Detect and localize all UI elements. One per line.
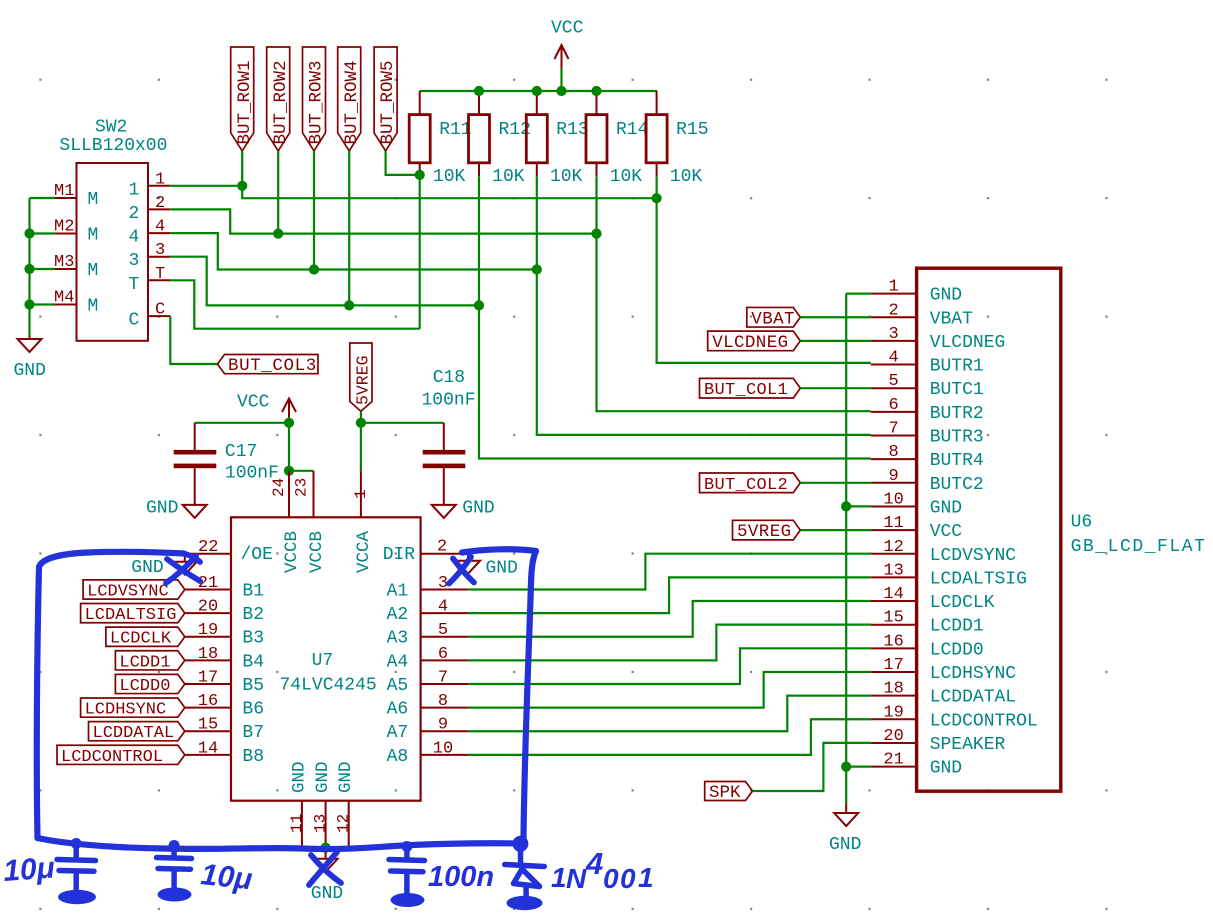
capacitor C17 xyxy=(174,423,279,505)
wire M1 stub xyxy=(30,197,56,199)
wire VCC arrow to junction xyxy=(288,417,290,423)
ground symbol at U7 pin 22 xyxy=(173,554,197,575)
annotation junction cap1 xyxy=(71,838,82,849)
svg-text:LCDD1: LCDD1 xyxy=(119,653,170,672)
U7 pin 10 A8 xyxy=(387,739,469,767)
annotation capacitor 10u (left) xyxy=(57,844,96,891)
svg-text:LCDD0: LCDD0 xyxy=(119,677,170,696)
svg-text:BUTR4: BUTR4 xyxy=(930,451,984,471)
svg-text:GND: GND xyxy=(289,761,309,793)
SW2 left pin M2 xyxy=(54,218,98,246)
svg-text:5VREG: 5VREG xyxy=(737,522,792,542)
U7 pin 24 VCCB xyxy=(270,471,302,573)
svg-text:7: 7 xyxy=(438,668,448,687)
net label LCDDATAL xyxy=(89,722,185,744)
wire BUT_ROW3 drop xyxy=(313,151,315,270)
wire U6 gnd drop xyxy=(845,767,847,803)
svg-text:5: 5 xyxy=(888,372,898,391)
svg-text:M3: M3 xyxy=(54,253,74,272)
svg-text:GND: GND xyxy=(829,835,861,855)
wire U7 A5 to U6 pin 16 xyxy=(468,648,871,684)
svg-text:C: C xyxy=(155,301,165,320)
net label BUT_ROW4 xyxy=(338,47,362,151)
wire BUT_COL1 to pin5 xyxy=(800,387,871,389)
svg-text:19: 19 xyxy=(198,621,218,640)
junction M3 xyxy=(24,264,34,274)
svg-text:B8: B8 xyxy=(242,747,264,767)
ground symbol below C17 xyxy=(183,505,207,518)
wire BUT_ROW4 drop xyxy=(348,151,350,306)
U7 pin 23 VCCB xyxy=(293,471,327,573)
U7 pin 1 VCCA xyxy=(352,472,374,574)
net label BUT_ROW2 xyxy=(267,47,291,151)
svg-text:10K: 10K xyxy=(492,167,525,187)
svg-text:A1: A1 xyxy=(387,582,409,602)
svg-text:VCCA: VCCA xyxy=(354,530,374,573)
annotation capacitor 10u (second) xyxy=(157,846,192,889)
svg-text:BUT_ROW2: BUT_ROW2 xyxy=(271,60,291,144)
svg-text:A3: A3 xyxy=(387,629,409,649)
svg-text:A5: A5 xyxy=(387,676,409,696)
annotation blue X at U7 pin2 gnd xyxy=(449,557,474,584)
svg-text:10μ: 10μ xyxy=(2,851,56,888)
svg-text:GND: GND xyxy=(930,498,962,518)
wire SPK to pin20 xyxy=(753,743,871,791)
U7 pin 21 B1 xyxy=(185,574,264,602)
wire VCCB jog to pin 23 xyxy=(289,470,314,472)
svg-text:R11: R11 xyxy=(439,120,471,140)
svg-text:LCDDATAL: LCDDATAL xyxy=(93,724,175,743)
junction row2/R14 xyxy=(591,229,601,239)
svg-text:BUTR1: BUTR1 xyxy=(930,357,984,377)
U7 pin 11 GND xyxy=(288,761,310,848)
svg-text:2: 2 xyxy=(129,204,140,224)
wire net row4 (pin3 bus) xyxy=(170,257,479,306)
svg-text:10K: 10K xyxy=(433,167,466,187)
svg-text:VBAT: VBAT xyxy=(751,309,795,329)
ground symbol below U7 xyxy=(314,849,338,872)
U7 pin 7 A5 xyxy=(387,668,469,696)
ground symbol at U7 pin 2 xyxy=(456,554,480,574)
net label 5VREG (vertical) xyxy=(350,343,373,411)
annotation blue loop right side xyxy=(462,549,536,842)
svg-text:SW2: SW2 xyxy=(95,117,127,137)
svg-text:GND: GND xyxy=(336,761,356,793)
annotation text 1N4001 xyxy=(551,846,654,894)
svg-text:17: 17 xyxy=(198,668,218,687)
svg-text:14: 14 xyxy=(883,585,903,604)
svg-text:1: 1 xyxy=(638,862,654,893)
svg-text:15: 15 xyxy=(198,716,218,735)
SW2 right pin C xyxy=(129,301,171,331)
svg-text:0: 0 xyxy=(620,863,636,894)
resistor R13 xyxy=(526,91,588,187)
svg-text:SPK: SPK xyxy=(709,783,741,803)
svg-text:VBAT: VBAT xyxy=(930,309,973,329)
svg-text:N: N xyxy=(566,863,587,894)
junction row1/R15 xyxy=(652,193,662,203)
svg-text:BUT_ROW1: BUT_ROW1 xyxy=(235,60,255,144)
net label BUT_COL3 xyxy=(218,355,319,377)
svg-text:5VREG: 5VREG xyxy=(353,355,372,405)
U6 pin 19 LCDCONTROL xyxy=(871,703,1038,731)
U7 pin 8 A6 xyxy=(387,692,469,720)
wire 5VREG to pin11 xyxy=(800,529,871,531)
annotation blue X at U7 pin22 gnd xyxy=(166,554,200,584)
svg-text:LCDD1: LCDD1 xyxy=(930,617,984,637)
svg-text:4: 4 xyxy=(888,349,898,368)
wire net row5 (pinT bus) xyxy=(170,280,419,328)
wire net row2 (pin2 bus) xyxy=(170,209,596,233)
wire U7 A1 to U6 pin 12 xyxy=(468,554,871,590)
svg-text:A7: A7 xyxy=(387,723,409,743)
U7 pin 2 DIR xyxy=(383,538,468,566)
svg-text:4: 4 xyxy=(438,598,448,617)
U6 pin 3 VLCDNEG xyxy=(871,325,1006,353)
wire BUT_ROW1 drop xyxy=(241,151,243,186)
svg-text:15: 15 xyxy=(883,609,903,628)
svg-text:8: 8 xyxy=(888,443,898,462)
junction row4/R12 xyxy=(474,300,484,310)
junction U7 bottom gnd xyxy=(321,843,331,853)
junction bus/R13 xyxy=(532,86,542,96)
svg-text:M4: M4 xyxy=(54,289,74,308)
svg-text:BUT_ROW5: BUT_ROW5 xyxy=(378,60,398,144)
SW2 right pin 4 xyxy=(129,218,171,248)
svg-text:A6: A6 xyxy=(387,700,409,720)
svg-text:SLLB120x00: SLLB120x00 xyxy=(59,136,167,156)
power symbol VCC (middle) xyxy=(237,393,296,418)
svg-text:LCDHSYNC: LCDHSYNC xyxy=(930,664,1017,684)
svg-text:LCDALTSIG: LCDALTSIG xyxy=(930,569,1027,589)
svg-text:DIR: DIR xyxy=(383,545,416,565)
svg-text:C17: C17 xyxy=(225,442,257,462)
svg-text:6: 6 xyxy=(438,645,448,664)
svg-text:M: M xyxy=(88,226,99,246)
U7 pin 6 A4 xyxy=(387,645,469,673)
wire U7 A8 to U6 pin 19 xyxy=(468,719,871,755)
svg-text:1: 1 xyxy=(551,862,567,893)
svg-text:100n: 100n xyxy=(428,861,494,893)
svg-text:C: C xyxy=(129,311,140,331)
U6 pin 10 GND xyxy=(871,490,962,518)
wire VLCDNEG to pin3 xyxy=(800,340,871,342)
svg-text:B4: B4 xyxy=(242,652,264,672)
U6 pin 5 BUTC1 xyxy=(871,372,984,400)
svg-text:M2: M2 xyxy=(54,218,74,237)
U7 pin 19 B3 xyxy=(185,621,264,649)
net label VLCDNEG xyxy=(708,331,801,353)
ground symbol below U6 xyxy=(834,803,858,826)
svg-text:B1: B1 xyxy=(242,582,264,602)
svg-text:3: 3 xyxy=(888,325,898,344)
SW2 left pin M1 xyxy=(54,182,98,210)
svg-text:13: 13 xyxy=(883,561,903,580)
svg-text:VLCDNEG: VLCDNEG xyxy=(930,333,1006,353)
wire net row1 (pin1 bus) xyxy=(242,186,656,198)
U7 pin 15 B7 xyxy=(185,716,264,744)
svg-text:BUT_COL1: BUT_COL1 xyxy=(704,381,788,400)
svg-text:12: 12 xyxy=(335,814,353,833)
svg-text:BUT_COL2: BUT_COL2 xyxy=(704,476,788,495)
svg-text:10: 10 xyxy=(883,490,903,509)
svg-text:LCDHSYNC: LCDHSYNC xyxy=(85,701,167,720)
U7 pin 20 B2 xyxy=(185,598,264,626)
svg-text:LCDDATAL: LCDDATAL xyxy=(930,688,1016,708)
svg-text:M: M xyxy=(88,297,99,317)
annotation blue loop left+top xyxy=(37,552,184,838)
resistor R11 xyxy=(409,91,471,187)
svg-text:R13: R13 xyxy=(556,120,588,140)
svg-text:9: 9 xyxy=(438,716,448,735)
svg-text:0: 0 xyxy=(603,863,619,894)
svg-text:9: 9 xyxy=(888,467,898,486)
svg-text:GND: GND xyxy=(131,558,163,578)
wire R12 riser to BUTR4 xyxy=(479,176,871,458)
junction pin1/BUT_ROW1 xyxy=(237,181,247,191)
annotation junction cap2 xyxy=(169,840,180,851)
junction VCC/C17 xyxy=(284,418,294,428)
svg-text:3: 3 xyxy=(129,251,140,271)
wire net row3 (pin4 bus) xyxy=(170,233,537,269)
svg-text:20: 20 xyxy=(883,727,903,746)
SW2 right pin 2 xyxy=(129,194,171,224)
net label VBAT xyxy=(747,307,801,329)
wire R14 riser to BUTR2 xyxy=(597,176,871,411)
svg-text:21: 21 xyxy=(883,751,903,770)
U6 pin 6 BUTR2 xyxy=(871,396,984,424)
svg-text:5: 5 xyxy=(438,621,448,640)
svg-text:2: 2 xyxy=(437,538,447,557)
svg-text:LCDD0: LCDD0 xyxy=(930,640,984,660)
U7 pin 14 B8 xyxy=(185,739,264,767)
switch SW2 body xyxy=(77,163,149,341)
wire U7 A3 to U6 pin 14 xyxy=(468,601,871,637)
SW2 right pin 1 xyxy=(129,170,171,200)
junction row3/BUT_ROW3 xyxy=(309,264,319,274)
junction U6 pin21 xyxy=(841,762,851,772)
wire VCC junction to C17 xyxy=(195,422,289,424)
svg-text:23: 23 xyxy=(293,478,311,497)
svg-text:11: 11 xyxy=(288,814,306,833)
svg-text:74LVC4245: 74LVC4245 xyxy=(280,676,377,696)
svg-text:T: T xyxy=(155,265,165,284)
U7 pin 3 A1 xyxy=(387,574,469,602)
wire M2 stub xyxy=(30,232,56,234)
SW2 right pin 3 xyxy=(129,241,171,271)
junction 5VREG/C18 xyxy=(356,418,366,428)
svg-text:/OE: /OE xyxy=(241,545,273,565)
svg-text:24: 24 xyxy=(270,478,288,497)
wire U7 bottom gnd xyxy=(302,848,349,850)
svg-text:U6: U6 xyxy=(1071,513,1093,533)
wire R15 riser to BUTR1 xyxy=(657,176,871,363)
svg-text:BUTR3: BUTR3 xyxy=(930,428,984,448)
svg-text:4: 4 xyxy=(585,846,603,881)
svg-text:B7: B7 xyxy=(242,723,264,743)
U6 pin 15 LCDD1 xyxy=(871,609,984,637)
svg-text:GND: GND xyxy=(311,884,343,904)
svg-text:LCDCONTROL: LCDCONTROL xyxy=(930,711,1038,731)
U7 pin 22 /OE xyxy=(185,538,273,565)
svg-text:16: 16 xyxy=(198,692,218,711)
junction bus/VCC xyxy=(556,86,566,96)
svg-text:U7: U7 xyxy=(312,651,334,671)
net label LCDALTSIG xyxy=(81,604,185,626)
annotation junction cap3 xyxy=(401,841,412,852)
U6 pin 1 GND xyxy=(871,278,962,306)
wire U6 pin1 stub xyxy=(846,293,871,295)
svg-text:7: 7 xyxy=(888,420,898,439)
U6 pin 4 BUTR1 xyxy=(871,349,984,377)
net label LCDD1 xyxy=(115,651,184,673)
wire VCC to U7 VCCB pins xyxy=(288,423,290,471)
svg-text:LCDCLK: LCDCLK xyxy=(110,630,172,649)
svg-text:GND: GND xyxy=(14,361,46,381)
ground symbol below C18 xyxy=(432,505,456,518)
resistor R14 xyxy=(586,91,648,187)
svg-text:VCC: VCC xyxy=(237,393,270,413)
wire BUT_ROW5 drop xyxy=(386,151,420,175)
svg-text:20: 20 xyxy=(198,598,218,617)
svg-text:T: T xyxy=(129,275,140,295)
connector U6 body xyxy=(917,268,1061,791)
annotation capacitor 100n xyxy=(389,847,425,894)
svg-text:BUTC2: BUTC2 xyxy=(930,475,984,495)
svg-text:18: 18 xyxy=(198,645,218,664)
U6 pin 14 LCDCLK xyxy=(871,585,995,613)
wire BUT_COL2 to pin9 xyxy=(800,482,871,484)
wire U6 pin10 stub xyxy=(846,505,871,507)
svg-text:1: 1 xyxy=(352,489,370,499)
net label 5VREG (U6) xyxy=(733,520,801,542)
svg-text:GND: GND xyxy=(930,286,962,306)
svg-text:GND: GND xyxy=(313,761,333,793)
net label LCDD0 xyxy=(115,674,184,696)
svg-text:2: 2 xyxy=(888,301,898,320)
wire BUT_ROW2 drop xyxy=(277,151,279,234)
wire U7 A2 to U6 pin 13 xyxy=(468,577,871,613)
svg-text:SPEAKER: SPEAKER xyxy=(930,735,1006,755)
wire M1-M4 gnd rail xyxy=(28,198,30,336)
U6 pin 7 BUTR3 xyxy=(871,420,984,448)
svg-text:LCDVSYNC: LCDVSYNC xyxy=(930,546,1017,566)
svg-text:GB_LCD_FLAT: GB_LCD_FLAT xyxy=(1071,537,1207,557)
resistor R12 xyxy=(469,91,531,187)
resistor R15 xyxy=(646,91,708,187)
net label SPK xyxy=(705,782,753,804)
wire U6 gnd rail xyxy=(845,294,847,767)
wire M4 stub xyxy=(30,303,56,305)
svg-text:BUTC1: BUTC1 xyxy=(930,380,984,400)
junction bus/R12 xyxy=(474,86,484,96)
svg-text:4: 4 xyxy=(155,218,165,237)
svg-text:1: 1 xyxy=(888,278,898,297)
U7 pin 4 A2 xyxy=(387,598,469,626)
svg-text:M: M xyxy=(88,261,99,281)
junction M4 xyxy=(24,299,34,309)
svg-text:VCCB: VCCB xyxy=(307,531,327,573)
svg-text:17: 17 xyxy=(883,656,903,675)
net label LCDCLK xyxy=(106,627,185,649)
U6 pin 21 GND xyxy=(871,751,962,779)
svg-text:11: 11 xyxy=(883,514,903,533)
svg-text:10K: 10K xyxy=(670,167,703,187)
svg-text:22: 22 xyxy=(198,538,218,557)
svg-text:6: 6 xyxy=(888,396,898,415)
svg-text:14: 14 xyxy=(198,739,218,758)
U6 pin 12 LCDVSYNC xyxy=(871,538,1017,566)
wire 5VREG to U7 VCCA xyxy=(360,423,362,472)
U6 pin 9 BUTC2 xyxy=(871,467,984,495)
annotation blue loop bottom xyxy=(38,838,524,849)
U7 pin 16 B6 xyxy=(185,692,264,720)
net label BUT_ROW3 xyxy=(303,47,327,151)
junction row4/BUT_ROW4 xyxy=(344,300,354,310)
svg-text:R14: R14 xyxy=(616,120,648,140)
svg-text:1: 1 xyxy=(155,170,165,189)
svg-text:B5: B5 xyxy=(242,676,264,696)
wire M3 stub xyxy=(30,268,56,270)
net label LCDHSYNC xyxy=(81,698,185,720)
wire VCC to bus xyxy=(560,68,562,91)
U6 pin 20 SPEAKER xyxy=(871,727,1006,755)
capacitor C18 xyxy=(422,368,476,505)
svg-text:VCC: VCC xyxy=(930,522,963,542)
svg-text:B6: B6 xyxy=(242,700,264,720)
SW2 left pin M4 xyxy=(54,289,98,317)
svg-text:A4: A4 xyxy=(387,652,409,672)
svg-text:B3: B3 xyxy=(242,629,264,649)
U7 pin 18 B4 xyxy=(185,645,264,673)
svg-text:3: 3 xyxy=(155,241,165,260)
svg-text:13: 13 xyxy=(312,814,330,833)
svg-text:19: 19 xyxy=(883,703,903,722)
svg-text:M: M xyxy=(88,190,99,210)
wire U7 A4 to U6 pin 15 xyxy=(468,625,871,661)
svg-text:VCCB: VCCB xyxy=(282,531,302,573)
junction row2/BUT_ROW2 xyxy=(273,229,283,239)
svg-text:BUT_COL3: BUT_COL3 xyxy=(228,356,317,376)
svg-text:1: 1 xyxy=(129,180,140,200)
net label BUT_ROW5 xyxy=(374,47,398,151)
svg-text:4: 4 xyxy=(129,228,140,248)
U6 pin 13 LCDALTSIG xyxy=(871,561,1027,589)
U6 pin 18 LCDDATAL xyxy=(871,680,1016,708)
svg-text:GND: GND xyxy=(462,499,494,519)
junction bus/R14 xyxy=(591,86,601,96)
wire 5VREG to junction xyxy=(360,411,362,423)
svg-text:16: 16 xyxy=(883,632,903,651)
svg-text:VLCDNEG: VLCDNEG xyxy=(712,333,788,353)
power symbol VCC (top) xyxy=(551,19,584,69)
svg-text:A2: A2 xyxy=(387,605,409,625)
junction R11 bottom / BUT_ROW5 xyxy=(415,170,425,180)
svg-text:R15: R15 xyxy=(676,120,708,140)
svg-text:10K: 10K xyxy=(610,167,643,187)
annotation diode 1N4001 xyxy=(505,844,545,897)
U7 pin 5 A3 xyxy=(387,621,469,649)
wire R13 riser to BUTR3 xyxy=(537,176,871,435)
annotation junction diode xyxy=(512,836,528,852)
U6 pin 8 BUTR4 xyxy=(871,443,984,471)
U6 pin 2 VBAT xyxy=(871,301,973,329)
wire R11 riser xyxy=(419,175,421,329)
svg-text:GND: GND xyxy=(486,559,518,579)
svg-text:10: 10 xyxy=(433,739,453,758)
net label BUT_ROW1 xyxy=(231,47,255,151)
wire VBAT to pin2 xyxy=(800,316,871,318)
